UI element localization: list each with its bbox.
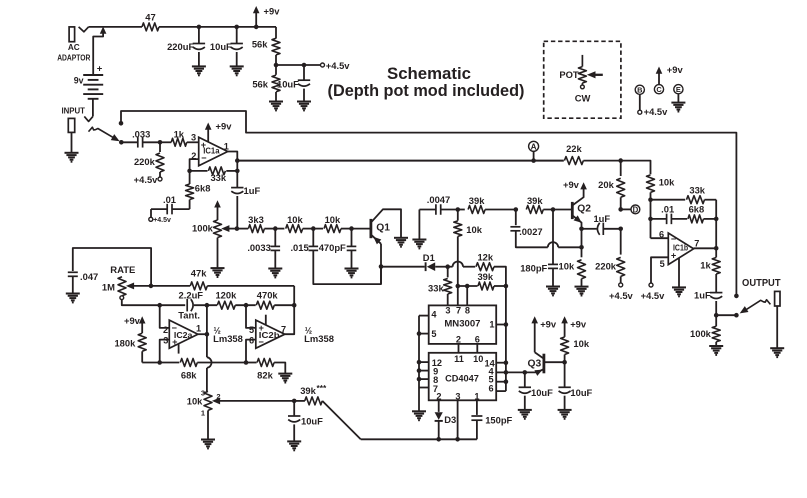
capacitor 10uF Q3b [564, 362, 566, 387]
legend terminal E [674, 85, 683, 94]
svg-text:1: 1 [489, 319, 494, 329]
wire output to fb [236, 161, 238, 188]
wire pin9 CD4047 [419, 370, 429, 372]
svg-text:10uF: 10uF [277, 79, 299, 90]
resistor 220k Q2 out [620, 229, 622, 255]
svg-text:6: 6 [475, 335, 480, 345]
resistor 10k Q3 [561, 337, 569, 354]
wire pin12 CD4047 [419, 361, 429, 363]
resistor 39k mix2 [526, 206, 543, 214]
node pin9 bus [417, 368, 422, 373]
svg-text:5: 5 [660, 259, 665, 269]
svg-text:100k: 100k [690, 328, 712, 339]
wire 10k depth to ground [207, 410, 209, 439]
wire D stub [621, 208, 631, 210]
wire pin1 MN3007 [496, 324, 506, 326]
wire 12k corner [494, 267, 506, 286]
svg-text:MN3007: MN3007 [444, 317, 480, 328]
node Q2 emitter [579, 227, 584, 232]
svg-text:+4.5v: +4.5v [326, 60, 351, 71]
svg-text:3: 3 [445, 306, 450, 316]
transistor Q1 [369, 219, 372, 238]
node 12k 39k pin1 [504, 284, 509, 289]
capacitor .033 [121, 141, 138, 143]
wire IC1b output [694, 247, 717, 249]
svg-text:Tant.: Tant. [178, 310, 200, 321]
svg-text:120k: 120k [215, 290, 237, 301]
wire .015 to Q1 emitter [313, 251, 381, 285]
svg-text:3k3: 3k3 [248, 214, 264, 225]
node 2.2uF left [157, 303, 162, 308]
node out switch [734, 313, 739, 318]
resistor 39k depth [294, 400, 305, 402]
resistor 33k BBD in [447, 267, 449, 278]
svg-text:.0027: .0027 [519, 226, 542, 237]
node power rail junction 10uF [234, 25, 239, 30]
wire 33k 6k8 junction [715, 200, 717, 249]
svg-text:CW: CW [575, 92, 591, 103]
svg-text:1: 1 [224, 141, 229, 151]
node input signal [119, 140, 124, 145]
wire pin3 CD4047 down [457, 400, 459, 439]
node pin12 bus [417, 360, 422, 365]
wire 100k to ground [217, 238, 219, 268]
resistor 20k [620, 161, 622, 176]
wire IC1a output [228, 152, 238, 161]
svg-text:6k8: 6k8 [195, 183, 211, 194]
ground 56k lower [269, 101, 283, 103]
svg-text:56k: 56k [252, 79, 268, 90]
svg-text:.0033: .0033 [247, 242, 270, 253]
svg-text:+9v: +9v [540, 318, 557, 329]
wire IC1b pin5 to +4.5v [651, 257, 668, 283]
wire out mix [716, 314, 736, 316]
resistor 1k out [715, 248, 717, 257]
wire pin5 IC2b [246, 305, 256, 328]
svg-text:1uF: 1uF [694, 290, 711, 301]
svg-text:1k: 1k [174, 128, 185, 139]
svg-text:.047: .047 [80, 271, 98, 282]
resistor 10k Q2 emitter [581, 229, 583, 257]
node 100k wiper [235, 226, 240, 231]
wire pin8 CD4047 [419, 378, 429, 380]
svg-text:OUTPUT: OUTPUT [742, 278, 781, 289]
svg-text:10uF: 10uF [301, 415, 323, 426]
svg-text:7: 7 [281, 325, 286, 335]
svg-text:Q1: Q1 [376, 222, 390, 233]
svg-text:ADAPTOR: ADAPTOR [57, 53, 90, 62]
ground 82k [278, 373, 292, 375]
node pin6 IC2b 82k [244, 360, 249, 365]
wire pin6 IC2b [246, 340, 256, 363]
node IC1b out [714, 246, 719, 251]
svg-text:10k: 10k [559, 261, 575, 272]
transistor Q3 [543, 354, 546, 374]
ground legend E [671, 102, 685, 104]
svg-text:33k: 33k [689, 184, 705, 195]
wire left ground bus [418, 316, 420, 412]
svg-text:+9v: +9v [264, 5, 281, 16]
svg-text:470k: 470k [257, 290, 279, 301]
capacitor .047 [73, 248, 151, 286]
wire pin2 IC2a [160, 305, 170, 328]
wire IC2a output [198, 333, 207, 335]
resistor 6k8 IC1b [688, 215, 703, 223]
battery negative lead wire [92, 99, 94, 117]
wire pin5 CD4047 [496, 381, 506, 383]
resistor 82k [246, 362, 257, 364]
svg-text:1k: 1k [700, 260, 711, 271]
svg-text:+4.5v: +4.5v [641, 290, 666, 301]
wire .0047 left ground [418, 210, 420, 240]
node 10k 10k [311, 226, 316, 231]
capacitor .0027 [515, 210, 517, 226]
svg-text:6k8: 6k8 [689, 204, 705, 215]
resistor 33k IC1a feedback [190, 170, 208, 172]
capacitor 10uF Q3a [524, 372, 526, 386]
capacitor .01 IC1b [651, 218, 667, 220]
wire pin7 into box [457, 286, 459, 305]
node +9v rail [254, 25, 259, 30]
input jack J2 [84, 116, 93, 121]
svg-text:7: 7 [456, 306, 461, 316]
node pin8 39k [465, 284, 470, 289]
resistor 33k IC1b fb [651, 199, 686, 201]
svg-text:10k: 10k [659, 177, 675, 188]
svg-text:.015: .015 [290, 242, 308, 253]
ground 470pF [345, 268, 359, 270]
node divider 10uF [302, 63, 307, 68]
terminal +4.5v divider [321, 63, 325, 67]
svg-text:68k: 68k [181, 370, 197, 381]
node pin1 bus [504, 322, 509, 327]
svg-text:220k: 220k [595, 261, 617, 272]
svg-text:1M: 1M [102, 281, 115, 292]
IC MN3007 box [429, 305, 497, 344]
capacitor 1uF Q2 [581, 228, 583, 230]
wire IC2a gnd stub [178, 344, 180, 354]
wire pin2 MN3007 to pin11 [458, 344, 460, 353]
node 10uF Q3 emitter [523, 370, 528, 375]
svg-text:56k: 56k [252, 39, 268, 50]
wire .0027 hop to Q2 emitter [548, 242, 558, 247]
node 39k .0027 [514, 207, 519, 212]
node letter D [631, 205, 640, 214]
node .01 tap [648, 217, 653, 222]
svg-text:150pF: 150pF [485, 415, 512, 426]
svg-text:39k: 39k [300, 385, 316, 396]
pot legend symbol [581, 55, 583, 67]
node letter A [529, 141, 539, 151]
node input switch tap [119, 121, 124, 126]
svg-text:39k: 39k [527, 195, 543, 206]
resistor 56k lower [275, 65, 277, 75]
op-amp IC1b [668, 233, 693, 265]
svg-text:IC1b: IC1b [673, 243, 688, 252]
wire D1 to 12k with hop [448, 266, 453, 268]
capacitor 470pF [351, 229, 353, 247]
node pin4 bus [504, 370, 509, 375]
power +9v arrow Q2 [580, 182, 587, 189]
svg-text:100k: 100k [192, 223, 214, 234]
ground 220uF [192, 65, 206, 67]
pot 1M lower terminal [120, 296, 124, 300]
svg-text:A: A [531, 143, 537, 152]
potentiometer 10k depth [204, 391, 212, 410]
wire pin6 IC1b [651, 237, 669, 239]
svg-text:2: 2 [436, 392, 441, 402]
svg-text:47: 47 [145, 11, 155, 22]
node 1uF 220k [618, 227, 623, 232]
svg-text:+9v: +9v [667, 64, 684, 75]
svg-text:.033: .033 [132, 128, 150, 139]
resistor 6k8 IC1a [189, 171, 191, 184]
svg-text:470pF: 470pF [319, 242, 346, 253]
ground left bus [412, 410, 426, 412]
svg-text:8: 8 [465, 306, 470, 316]
svg-text:10k: 10k [573, 338, 589, 349]
svg-text:11: 11 [454, 354, 464, 364]
node 10k Q1 base [349, 226, 354, 231]
capacitor 10uF power [236, 27, 238, 44]
ground 10k depth [201, 439, 215, 441]
resistor 12k [476, 263, 494, 271]
svg-text:IC2b: IC2b [259, 331, 280, 340]
svg-text:39k: 39k [477, 271, 493, 282]
svg-text:+9v: +9v [563, 179, 580, 190]
resistor 1k [171, 138, 186, 146]
ground 10uF depth [287, 440, 301, 442]
capacitor .01 IC1a [172, 208, 190, 210]
node depth wiper 39k [292, 399, 297, 404]
svg-text:+: + [97, 63, 103, 74]
resistor 10k IC1b in [647, 175, 655, 193]
battery positive lead wire [93, 32, 103, 75]
resistor 120k [217, 301, 235, 309]
svg-text:10: 10 [473, 354, 483, 364]
wire 180k to bottom bus [142, 362, 160, 364]
capacitor 1uF IC1a [231, 187, 243, 189]
terminal +4.5v .01 [149, 217, 153, 221]
ground .047 [66, 293, 80, 295]
svg-text:3: 3 [455, 392, 460, 402]
svg-text:2: 2 [456, 335, 461, 345]
node pin8 bus [417, 377, 422, 382]
op-amp IC1a [199, 137, 228, 166]
wire main signal [237, 160, 564, 162]
svg-text:INPUT: INPUT [61, 105, 85, 115]
ground 10uF Q3a [518, 409, 532, 411]
svg-text:82k: 82k [257, 370, 273, 381]
node +4.5v divider [274, 63, 279, 68]
svg-text:4: 4 [431, 310, 437, 320]
wire clock bottom [361, 438, 477, 440]
node 10k pin7 [456, 284, 461, 289]
power +9v arrow Q3 collector [531, 316, 538, 323]
capacitor .015 [312, 229, 314, 247]
node main wire 20k [618, 158, 623, 163]
svg-text:10uF: 10uF [210, 41, 232, 52]
node LFO fb top [292, 303, 297, 308]
svg-text:12k: 12k [477, 252, 493, 263]
svg-text:Lm358: Lm358 [213, 333, 243, 344]
svg-text:CD4047: CD4047 [445, 373, 479, 384]
wire IC1a inverting input [190, 159, 199, 171]
svg-text:AC: AC [68, 43, 80, 52]
terminal +4.5v IC1b [649, 283, 653, 287]
wire IC2b vcc stub [265, 315, 267, 325]
svg-text:+4.5v: +4.5v [609, 290, 634, 301]
wire to Q1 base [352, 228, 371, 230]
wire input jack sleeve [71, 132, 73, 152]
wire pin7 CD4047 [419, 387, 429, 389]
diode D1 [381, 266, 425, 268]
resistor 68k [160, 362, 180, 364]
svg-text:2: 2 [216, 392, 220, 401]
resistor 39k BBD fb [458, 285, 478, 287]
capacitor 10uF divider [303, 65, 305, 80]
svg-text:1: 1 [201, 409, 205, 418]
resistor 39k mix1 [458, 209, 465, 211]
resistor 220k input bias [159, 142, 161, 152]
resistor 470k [256, 301, 274, 309]
node pin5 bus [417, 331, 422, 336]
node .033 220k junction [158, 140, 163, 145]
svg-text:Q2: Q2 [577, 203, 591, 214]
svg-text:220k: 220k [134, 156, 156, 167]
resistor 22k [564, 157, 583, 165]
svg-text:3: 3 [191, 132, 196, 142]
wire pin8 into box [466, 286, 468, 305]
ground 10uF Q3b [558, 409, 572, 411]
resistor 10k chain2 [313, 228, 323, 230]
svg-text:+9v: +9v [570, 318, 587, 329]
svg-text:1: 1 [196, 324, 201, 334]
ground 100k out [709, 345, 723, 347]
svg-text:1uF: 1uF [593, 213, 610, 224]
node pin3 clock wire [455, 437, 460, 442]
svg-text:1uF: 1uF [244, 185, 261, 196]
capacitor 180pF [552, 210, 554, 265]
node IC2a out [205, 332, 210, 337]
svg-text:***: *** [317, 383, 328, 393]
power +9v arrow Q3 10k [564, 321, 566, 337]
svg-text:+9v: +9v [124, 315, 141, 326]
resistor 180k [138, 333, 146, 351]
legend terminal C [654, 85, 663, 94]
power +9v arrow IC1a [207, 128, 209, 142]
ground 10k Q2 [575, 286, 589, 288]
node power rail junction 220uF [197, 25, 202, 30]
wire pin6 CD4047 [496, 390, 506, 392]
node 10k 33k [648, 197, 653, 202]
terminal +4.5v 220k [158, 177, 162, 181]
capacitor 10uF depth [293, 401, 295, 416]
svg-text:3: 3 [201, 389, 205, 398]
node 120k 470k [244, 303, 249, 308]
svg-text:B: B [637, 86, 642, 95]
node Q2 emitter .0027 [579, 245, 584, 250]
ground 10uF divider [297, 101, 311, 103]
wire rail to 56k [275, 27, 277, 39]
svg-text:C: C [656, 85, 662, 94]
node IC1a output [235, 158, 240, 163]
node A tap [531, 158, 536, 163]
wire pin4 CD4047 [496, 371, 506, 373]
svg-text:.01: .01 [661, 204, 674, 215]
capacitor .0047 [419, 209, 435, 211]
AC adaptor jack J1 [69, 27, 75, 42]
svg-text:180k: 180k [114, 338, 136, 349]
svg-text:6: 6 [488, 384, 493, 394]
wire pin6 MN3007 to pin10 [476, 344, 478, 353]
node 6k8 33k [714, 217, 719, 222]
ground 100k pot [211, 267, 225, 269]
legend terminal B [635, 85, 644, 94]
wire pin14 CD4047 [496, 362, 506, 364]
wire pin5 MN3007 [419, 333, 429, 335]
wire pin4 to Q3 [506, 371, 537, 373]
output jack J3 [775, 291, 780, 306]
resistor 3k3 [237, 228, 248, 230]
wire A stub [533, 151, 535, 160]
wire pin4 MN3007 [419, 315, 429, 317]
svg-text:+4.5v: +4.5v [134, 174, 159, 185]
svg-text:22k: 22k [566, 143, 582, 154]
svg-text:10uF: 10uF [531, 387, 553, 398]
ground IC1b stub [672, 286, 686, 288]
resistor 56k upper [272, 38, 280, 55]
ground .0047 [412, 239, 426, 241]
node pin14 bus [504, 360, 509, 365]
resistor 10k chain1 [275, 228, 284, 230]
svg-text:10k: 10k [466, 224, 482, 235]
svg-text:33k: 33k [428, 282, 444, 293]
svg-text:9v: 9v [74, 75, 84, 85]
node IC2a out top [205, 303, 210, 308]
switch input bypass [89, 127, 114, 138]
wire IC2a out vertical with hop [206, 305, 208, 357]
resistor 10k BBD bias [457, 210, 459, 221]
diode D3 [438, 400, 440, 412]
pot legend wiper terminal circle [581, 83, 583, 85]
ground output jack [770, 347, 784, 349]
svg-text:6: 6 [659, 229, 664, 239]
node out mix [714, 313, 719, 318]
node dry signal end [734, 294, 739, 299]
svg-text:(Depth pot mod included): (Depth pot mod included) [328, 81, 525, 100]
capacitor 220uF [198, 27, 200, 44]
ground 180pF [546, 286, 560, 288]
wire pin3 IC2a [160, 340, 170, 363]
svg-text:D: D [633, 205, 639, 214]
svg-text:47k: 47k [191, 267, 207, 278]
node Q3 base 10k [562, 360, 567, 365]
svg-text:1: 1 [474, 392, 479, 402]
svg-text:39k: 39k [469, 195, 485, 206]
wire 47k corner to IC2b out [285, 286, 294, 334]
svg-text:2: 2 [163, 325, 168, 335]
svg-text:D3: D3 [444, 414, 456, 425]
power +9v arrow 180k [141, 321, 143, 333]
node D tap [618, 207, 623, 212]
resistor 47k [151, 285, 190, 287]
op-amp IC2b [256, 320, 285, 348]
ground 10uF power [230, 65, 244, 67]
node D3 clock wire [436, 437, 441, 442]
capacitor 1uF out [710, 292, 722, 294]
capacitor 150pF [476, 400, 478, 415]
